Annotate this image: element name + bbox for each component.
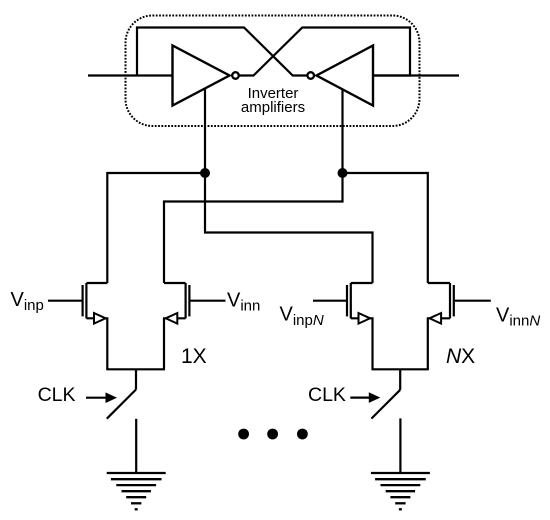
- svg-text:amplifiers: amplifiers: [241, 99, 305, 116]
- svg-text:CLK: CLK: [308, 384, 346, 406]
- svg-text:NX: NX: [446, 345, 475, 368]
- svg-text:CLK: CLK: [38, 384, 76, 406]
- svg-text:1X: 1X: [181, 345, 207, 368]
